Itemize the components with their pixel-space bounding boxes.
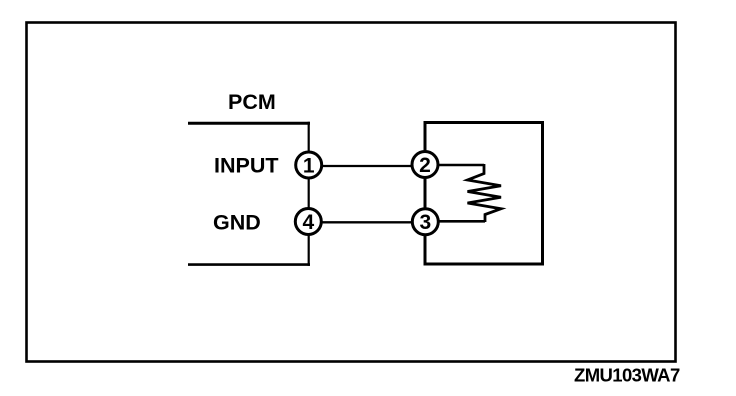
wire GND row: pin 4 to pin 3	[309, 221, 425, 223]
node 4 (pin 4)	[295, 209, 321, 235]
resistor (zigzag)	[468, 164, 502, 222]
svg-text:1: 1	[303, 154, 315, 177]
sensor box	[425, 123, 543, 265]
node 3 (pin 3)	[412, 209, 438, 235]
node 1 (pin 1)	[296, 152, 322, 178]
wire PCM connector bracket (pin 1 / pin 4 side)	[188, 122, 310, 125]
svg-text:2: 2	[419, 154, 431, 177]
wire pin 2 to resistor top	[425, 164, 484, 167]
wire: bracket bottom horizontal	[188, 263, 310, 266]
svg-text:INPUT: INPUT	[214, 154, 279, 178]
svg-text:GND: GND	[213, 211, 261, 235]
svg-text:4: 4	[302, 211, 314, 234]
wire pin 3 to resistor bottom	[425, 220, 485, 223]
wire: bracket vertical pin1-pin4	[308, 122, 310, 266]
svg-text:PCM: PCM	[228, 90, 276, 114]
node 2 (pin 2)	[412, 152, 438, 178]
wire INPUT row: pin 1 to pin 2	[309, 165, 425, 167]
svg-text:ZMU103WA7: ZMU103WA7	[574, 365, 680, 386]
svg-text:3: 3	[419, 211, 431, 234]
